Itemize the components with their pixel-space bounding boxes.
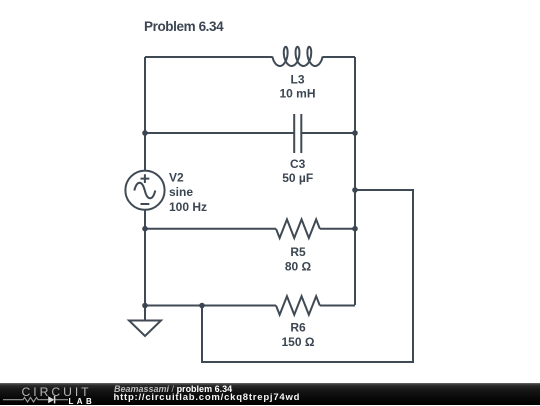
node ground junction: [142, 303, 148, 309]
resistor R6: [276, 296, 320, 315]
wire capacitor row right: [301, 132, 355, 134]
footer credit line: [114, 384, 232, 394]
svg-text:10 mH: 10 mH: [279, 87, 315, 101]
svg-text:50 µF: 50 µF: [282, 171, 313, 185]
node R5 left junction: [142, 226, 148, 232]
svg-text:Problem 6.34: Problem 6.34: [144, 19, 224, 34]
wire left rail lower: V2 bottom down to ground node: [144, 210, 146, 306]
CircuitLab logo schematic glyph (resistor + diode): [3, 393, 69, 405]
wire left rail upper: top corner down to V2: [144, 57, 146, 171]
CircuitLab logo wordmark CIRCUIT: [22, 385, 92, 399]
V2 plus sign: [141, 174, 150, 183]
wire R5 row left: [145, 228, 276, 230]
wire right rail: [354, 57, 356, 305]
ground: [129, 306, 161, 337]
svg-text:80 Ω: 80 Ω: [285, 259, 312, 273]
svg-text:R5: R5: [290, 245, 306, 259]
svg-text:100 Hz: 100 Hz: [169, 200, 207, 214]
footer url line: [114, 392, 301, 403]
wire bottom row: ground node to R6: [145, 305, 276, 307]
node bottom loop junction: [199, 303, 205, 309]
svg-text:L3: L3: [290, 73, 304, 87]
node V2/C3 left junction: [142, 130, 148, 136]
svg-text:V2: V2: [169, 170, 184, 184]
node C3 right junction: [352, 130, 358, 136]
CircuitLab logo LAB: [69, 397, 96, 406]
svg-text:R6: R6: [290, 321, 306, 335]
resistor R5: [276, 219, 320, 238]
wire capacitor row left: [145, 132, 294, 134]
capacitor C3: [294, 114, 301, 153]
footer bar: [0, 383, 540, 405]
inductor L3: [272, 47, 322, 66]
wire R5 row right: [320, 228, 355, 230]
svg-text:150 Ω: 150 Ω: [282, 335, 315, 349]
voltage source V2: [125, 171, 164, 210]
node R5 right junction: [352, 226, 358, 232]
wire outer return loop: [202, 190, 413, 362]
node return loop tap: [352, 187, 358, 193]
V2 minus sign: [141, 203, 150, 205]
svg-text:sine: sine: [169, 185, 193, 199]
svg-text:C3: C3: [290, 157, 306, 171]
V2 sine symbol: [134, 183, 155, 199]
wire R6 to right rail: [320, 305, 355, 307]
wire top: V2 top node to L3 to right rail: [145, 56, 355, 58]
